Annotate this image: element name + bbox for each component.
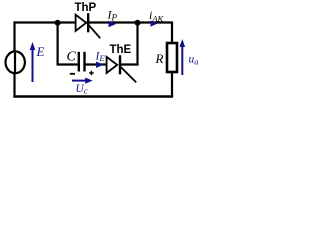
arrow IP current arrowhead (blue) [109,21,117,27]
label R [155,51,164,66]
svg-text:C: C [67,50,77,65]
arrow Uc (blue, right) [72,78,93,84]
label Uc [76,83,88,96]
arrow iAK current arrowhead (blue) [151,21,158,27]
capacitor minus sign [70,73,75,75]
wire capacitor to ThE [85,63,107,65]
svg-text:Uc: Uc [76,83,88,96]
resistor R [167,43,177,72]
arrow E (blue, up) [30,42,36,82]
svg-text:IE: IE [95,50,106,63]
svg-text:ThE: ThE [110,44,132,56]
label ThP [75,2,97,14]
voltage source circle [6,51,25,73]
thyristor ThP [76,13,101,38]
thyristor ThE [107,55,137,82]
svg-text:IP: IP [107,8,118,23]
wire ThE to node B [120,23,138,65]
svg-text:R: R [155,51,164,66]
capacitor plus sign [89,71,94,75]
svg-text:ThP: ThP [75,2,97,14]
wire bottom [13,95,173,97]
wire from node A down to capacitor branch [58,23,78,65]
label IE (blue) [95,50,106,63]
node junction dot B (top middle) [135,20,141,26]
node junction dot A (top left) [55,20,61,26]
label ua (blue) [189,54,199,67]
wire left [13,21,15,97]
svg-text:ua: ua [189,54,199,67]
arrow ua (blue, up) [180,39,186,75]
svg-text:E: E [36,44,45,59]
label C [67,50,77,65]
label E [36,44,45,59]
arrow IE current arrowhead (blue) [96,62,104,68]
wire right lower [171,72,173,98]
wire top [15,21,173,23]
wire right upper [171,21,173,43]
svg-text:iAK: iAK [149,8,165,24]
capacitor C plates [79,52,85,72]
label IP [107,8,118,23]
label iAK [149,8,165,24]
label ThE [110,44,132,56]
